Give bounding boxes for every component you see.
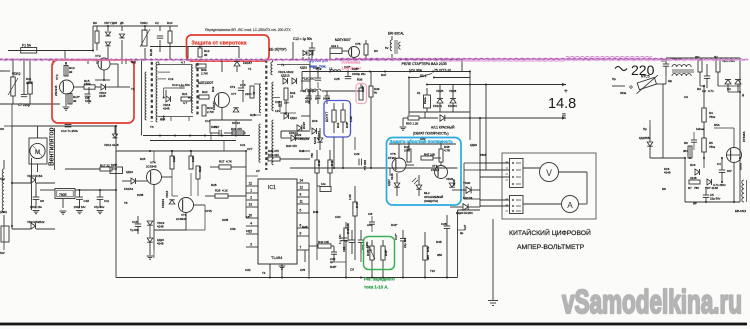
svg-text:1 μ 16v: 1 μ 16v [338,234,342,244]
svg-text:СЛ: СЛ [350,268,354,272]
svg-text:14.8: 14.8 [548,96,576,112]
svg-text:R41: R41 [330,160,334,166]
svg-text:ТЗ: ТЗ [150,125,154,129]
svg-text:4148: 4148 [163,107,170,111]
svg-text:ЮУ9: ЮУ9 [211,125,218,129]
svg-text:Тр2: Тр2 [0,177,5,181]
svg-text:9: 9 [300,232,302,236]
svg-text:VT2: VT2 [55,74,59,80]
svg-text:R47 10К: R47 10К [424,153,435,157]
svg-text:ЮЛ8: ЮЛ8 [137,193,144,197]
svg-text:ЮУ: ЮУ [727,169,732,173]
svg-text:R42 10К: R42 10К [318,240,329,244]
svg-text:V: V [546,168,552,178]
svg-text:4.7n: 4.7n [708,89,714,93]
svg-text:vSamodelkina.ru: vSamodelkina.ru [562,283,742,320]
svg-text:VD15: VD15 [165,190,169,198]
svg-text:R3: R3 [697,87,701,91]
svg-text:FR187: FR187 [243,61,252,65]
svg-text:С21: С21 [240,143,246,147]
svg-text:С19*: С19* [313,66,320,70]
svg-text:78К: 78К [310,153,314,158]
svg-text:NTC5: NTC5 [641,75,650,79]
svg-text:R40: R40 [317,160,321,166]
svg-text:Пр: Пр [643,127,647,131]
svg-text:КД22: КД22 [290,116,297,120]
svg-text:R30 47К: R30 47К [286,144,297,148]
svg-text:R4Б: R4Б [436,240,442,244]
svg-text:R27: R27 [219,160,225,164]
svg-text:10: 10 [246,229,250,233]
svg-text:25v: 25v [305,100,310,104]
svg-text:Др: Др [693,201,697,205]
svg-text:ЗЮв: ЗЮв [620,91,627,95]
svg-text:MJE13007: MJE13007 [198,81,213,85]
svg-text:СУ7: СУ7 [247,147,253,151]
svg-text:47: 47 [252,91,256,95]
svg-text:4148: 4148 [690,176,697,180]
svg-text:Др2: Др2 [160,117,166,121]
svg-text:28v: 28v [315,97,320,101]
svg-text:(ОБРАТ ПОЛЯРНОСТЬ): (ОБРАТ ПОЛЯРНОСТЬ) [413,132,449,136]
svg-text:1000μ 25v: 1000μ 25v [352,72,366,76]
svg-text:R50 1.2К: R50 1.2К [406,122,419,126]
svg-text:АЛ2: АЛ2 [420,137,426,141]
svg-text:4148: 4148 [99,94,106,98]
svg-text:780: 780 [694,186,699,190]
svg-text:11: 11 [300,200,304,204]
svg-text:036К: 036К [26,81,33,85]
svg-text:4148: 4148 [390,173,394,180]
svg-text:КС9У: КС9У [302,122,306,129]
svg-text:A: A [567,201,573,210]
svg-text:С13: С13 [168,77,174,81]
svg-text:ЮЛ7: ЮЛ7 [111,163,118,167]
svg-text:3К: 3К [73,99,77,103]
svg-text:100μ 16v: 100μ 16v [30,205,43,209]
svg-text:R44*: R44* [355,201,359,208]
svg-text:IC1: IC1 [268,185,276,191]
svg-text:R4Б: R4Б [302,225,308,229]
svg-text:R2Б: R2Б [211,183,217,187]
svg-text:КД23: КД23 [300,66,307,70]
svg-text:С2: С2 [155,21,159,25]
svg-text:СУ: СУ [256,169,260,173]
svg-text:R22 41К: R22 41К [268,153,279,157]
svg-text:4148: 4148 [157,242,164,246]
svg-text:1: 1 [250,189,252,193]
svg-text:Д5: Д5 [120,21,124,25]
svg-text:Т1: Т1 [281,63,285,67]
svg-text:Т1: Т1 [248,67,252,71]
svg-text:КТ838А: КТ838А [742,131,746,142]
svg-text:Кф: Кф [668,79,673,83]
svg-text:R38*: R38* [361,85,365,92]
svg-text:12V 30A: 12V 30A [409,69,423,73]
svg-text:V77: V77 [231,92,237,96]
svg-text:14: 14 [300,179,304,183]
svg-text:R7: R7 [688,186,692,190]
svg-text:СЛ9: СЛ9 [230,227,236,231]
svg-text:С3: С3 [684,95,688,99]
svg-text:АЛ.1 КРАСНЫЙ: АЛ.1 КРАСНЫЙ [431,126,455,130]
svg-text:220n: 220n [245,92,252,96]
svg-text:КД29: КД29 [470,143,477,147]
svg-text:Тμ 80к: Тμ 80к [130,228,139,232]
svg-text:7805: 7805 [480,153,487,157]
svg-text:22μ 16v: 22μ 16v [403,237,407,248]
svg-text:R9: R9 [93,21,97,25]
svg-text:+: + [564,88,568,95]
svg-text:4148: 4148 [664,171,671,175]
svg-text:КД1Б5Б: КД1Б5Б [639,136,650,140]
svg-text:R41*: R41* [391,223,398,227]
svg-text:VD7 4148: VD7 4148 [705,186,718,190]
svg-text:Т10: Т10 [430,269,435,273]
svg-text:ERI-33CAL: ERI-33CAL [388,32,404,36]
svg-text:R34: R34 [336,122,340,128]
svg-text:Об: Об [0,127,4,131]
svg-text:R2Б: R2Б [250,113,256,117]
svg-text:КД13: КД13 [126,170,133,174]
svg-text:380: 380 [426,255,430,260]
svg-text:VDR1: VDR1 [140,21,148,25]
svg-text:R28: R28 [215,189,221,193]
svg-text:КТ3: КТ3 [230,85,235,89]
svg-text:R48*: R48* [384,249,388,256]
svg-text:С1Б: С1Б [84,199,90,203]
svg-text:тока 1-10 А.: тока 1-10 А. [364,285,389,290]
svg-text:C14 7n 250v: C14 7n 250v [61,129,79,133]
svg-text:150К: 150К [84,82,91,86]
svg-text:2CS940: 2CS940 [176,217,187,221]
svg-text:7805: 7805 [59,193,67,197]
svg-text:R31: R31 [299,149,305,153]
svg-text:С28: С28 [441,222,447,226]
svg-text:100μ 16v: 100μ 16v [74,205,87,209]
svg-text:16: 16 [290,95,294,99]
svg-text:ЕЕ-1б(ТОР): ЕЕ-1б(ТОР) [269,48,286,52]
svg-text:16v: 16v [284,101,289,105]
svg-text:10к: 10к [321,182,326,186]
svg-text:3: 3 [250,243,252,247]
svg-text:АМПЕР-ВОЛЬТМЕТР: АМПЕР-ВОЛЬТМЕТР [517,244,585,251]
svg-text:C15: C15 [132,220,138,224]
svg-text:КУ15: КУ15 [205,209,212,213]
svg-text:КУ8: КУ8 [300,268,306,272]
svg-text:=: = [562,112,566,119]
svg-text:ЮЛ5: ЮЛ5 [222,218,229,222]
svg-text:С18: С18 [275,100,281,104]
svg-text:(ЗАЩИТА): (ЗАЩИТА) [424,199,438,203]
svg-text:2CS945: 2CS945 [146,165,157,169]
svg-text:К7319: К7319 [431,168,440,172]
svg-text:КТ361: КТ361 [388,156,397,160]
svg-text:R5А: R5А [714,123,720,127]
svg-text:Д: Д [742,93,744,97]
svg-text:КС6: КС6 [690,163,696,167]
svg-text:R21: R21 [182,92,188,96]
svg-text:12: 12 [248,182,252,186]
svg-text:FR187: FR187 [212,101,216,110]
svg-text:R0: R0 [374,49,378,53]
svg-text:ШУНТ: ШУНТ [325,111,329,122]
svg-text:СЛ2: СЛ2 [245,268,251,272]
svg-text:1.6К: 1.6К [348,194,352,200]
svg-text:А19 1: А19 1 [331,44,339,48]
svg-text:Рег. зарядного: Рег. зарядного [364,277,395,282]
svg-text:R19: R19 [211,86,215,92]
svg-text:FR104: FR104 [448,104,457,108]
svg-text:8: 8 [300,193,302,197]
svg-text:4.7К: 4.7К [226,160,232,164]
svg-text:Т8: Т8 [124,201,128,205]
svg-text:R2б: R2б [198,166,202,172]
svg-text:75.3777-10: 75.3777-10 [434,69,451,73]
svg-text:3Ю: 3Ю [683,149,688,153]
svg-text:4: 4 [250,222,252,226]
svg-text:КД29 FR1Б4: КД29 FR1Б4 [456,211,473,215]
svg-text:F1 5А: F1 5А [22,44,32,48]
svg-text:VD8 FR1Б4: VD8 FR1Б4 [27,174,43,178]
svg-text:Т4: Т4 [262,271,266,275]
svg-text:FR1Б4: FR1Б4 [161,199,165,208]
svg-text:4.7R: 4.7R [444,149,450,153]
svg-text:КИТАЙСКИЙ ЦИФРОВОЙ: КИТАЙСКИЙ ЦИФРОВОЙ [509,228,591,237]
svg-text:R8: R8 [662,187,666,191]
svg-text:FR1Б4: FR1Б4 [124,187,133,191]
svg-text:R45*: R45* [330,265,337,269]
svg-text:12V: 12V [275,109,280,113]
svg-text:Т2: Т2 [131,87,135,91]
svg-text:13: 13 [248,203,252,207]
svg-text:РЕЛЕ СТАРТЕРА ВАЗ 2105: РЕЛЕ СТАРТЕРА ВАЗ 2105 [402,62,447,66]
svg-text:V7Б: V7Б [355,42,361,46]
svg-text:C11: C11 [104,199,109,203]
svg-text:КС9: КС9 [312,119,318,123]
svg-text:2.2К: 2.2К [191,156,195,162]
svg-text:R36: R36 [357,78,363,82]
svg-text:СЛ4: СЛ4 [335,215,341,219]
svg-text:КСУ9: КСУ9 [313,137,317,144]
svg-text:C4: C4 [717,162,721,166]
svg-text:R17 22: R17 22 [100,164,110,168]
svg-text:С2Б: С2Б [334,77,340,81]
svg-text:12: 12 [300,186,304,190]
svg-text:ЕВ-1б(4: ЕВ-1б(4 [735,209,746,213]
svg-text:4148: 4148 [452,179,456,186]
svg-text:К1: К1 [417,91,421,95]
svg-text:R33 47К: R33 47К [268,149,279,153]
svg-text:4.7: 4.7 [183,101,188,105]
svg-text:R22: R22 [202,90,208,94]
svg-text:Реле: Реле [423,97,427,104]
svg-text:5V: 5V [385,46,389,50]
svg-text:4148: 4148 [157,225,164,229]
svg-text:47μ 50v: 47μ 50v [94,205,105,209]
svg-text:С29: С29 [354,152,360,156]
svg-text:R4б* 1К: R4б* 1К [366,245,370,256]
svg-text:MJEY3007: MJEY3007 [335,38,351,42]
svg-text:RL2Б: RL2Б [149,49,153,56]
svg-text:R49: R49 [426,246,430,252]
svg-text:2.7W: 2.7W [201,72,208,76]
svg-text:3К: 3К [69,70,73,74]
svg-text:F13C20С: F13C20С [302,77,316,81]
svg-text:2.2К: 2.2К [172,156,176,162]
svg-text:R43 18К: R43 18К [346,223,350,234]
svg-text:16: 16 [246,215,250,219]
svg-text:VD12 4148: VD12 4148 [104,143,119,147]
svg-text:C16: C16 [240,83,246,87]
svg-text:TL494: TL494 [271,255,283,260]
svg-text:R37: R37 [381,73,387,77]
svg-text:0.4R: 0.4R [404,149,410,153]
svg-text:VDR2: VDR2 [12,72,21,76]
svg-text:3К: 3К [204,53,208,57]
svg-text:1Мом: 1Мом [696,127,704,131]
svg-text:750к: 750к [709,115,716,119]
svg-text:4.1К: 4.1К [222,189,228,193]
svg-text:Пр: Пр [612,77,616,81]
svg-text:R44: R44 [313,210,319,214]
svg-text:VD7 ГД05: VD7 ГД05 [104,21,117,25]
svg-text:5: 5 [300,209,302,213]
svg-text:7: 7 [300,246,302,250]
svg-text:VD9 MS2Б22: VD9 MS2Б22 [27,220,45,224]
svg-text:С2: С2 [727,87,731,91]
svg-text:R29 47К: R29 47К [231,127,242,131]
svg-text:Переделывался ВП .ЛIС mod. L: Переделывался ВП .ЛIС mod. LC-250ATX с/н… [205,28,291,32]
svg-text:100к: 100к [85,99,92,103]
svg-text:R25: R25 [140,157,146,161]
svg-text:С2Б*: С2Б* [352,67,360,71]
svg-text:2SC945: 2SC945 [54,85,58,96]
svg-text:КД213: КД213 [281,74,290,78]
svg-text:1.9К: 1.9К [349,116,353,122]
svg-text:FR104: FR104 [289,131,298,135]
svg-text:R6: R6 [684,141,688,145]
svg-text:С2Г: С2Г [463,224,467,230]
svg-text:C12 ≈ 1μ 50v: C12 ≈ 1μ 50v [293,37,312,41]
svg-text:2: 2 [250,196,252,200]
svg-text:Кр: Кр [460,231,464,235]
svg-text:К1.1: К1.1 [420,74,427,78]
svg-text:(29К): (29К) [0,210,7,214]
svg-text:Защита от сверотока: Защита от сверотока [192,40,247,46]
svg-text:ЮУ: ЮУ [0,251,5,255]
svg-text:22μ 50v: 22μ 50v [710,197,721,201]
svg-text:С17*: С17* [394,233,398,240]
svg-text:R10: R10 [167,21,173,25]
svg-text:К38 16v: К38 16v [363,160,367,171]
svg-text:750к: 750к [709,145,716,149]
svg-text:Об: Об [40,199,44,203]
svg-text:3Б0: 3Б0 [437,253,443,257]
svg-text:FR104: FR104 [433,104,442,108]
